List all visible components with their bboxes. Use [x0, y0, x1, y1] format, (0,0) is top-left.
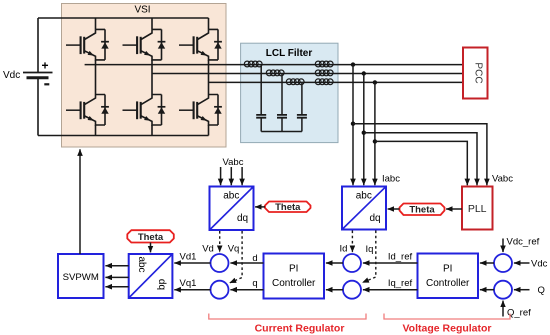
svg-text:Vdc: Vdc: [3, 70, 20, 81]
wire: Id dashed feedback: [351, 231, 353, 253]
Theta tag 3 (to dq-abc transform): [127, 230, 174, 243]
wire: Q input arrow: [514, 289, 530, 291]
wire: Theta 3 arrow into U4: [150, 243, 152, 253]
wire: Iabc sense c down to abc-dq: [374, 82, 376, 185]
SVPWM block U5: [58, 254, 104, 298]
wire: battery positive to top dc rail: [37, 18, 39, 73]
battery Vdc positive plate: [23, 72, 53, 74]
svg-text:abc: abc: [223, 191, 239, 202]
capacitor C2 lead: [281, 74, 283, 132]
svg-text:LCL Filter: LCL Filter: [266, 48, 313, 59]
wire: leg A top stub: [95, 18, 97, 29]
node branch c to PLL: [373, 139, 377, 143]
svg-text:Vd: Vd: [202, 243, 214, 254]
wire: U7 to S3 (Id_ref): [363, 262, 418, 264]
svg-text:Controller: Controller: [272, 278, 316, 289]
wire: leg C bottom stub: [208, 125, 210, 136]
inductor L6 (grid side c): [315, 79, 333, 85]
IGBT Q4 with diode D4 (leg B bottom): [123, 95, 166, 126]
wire: branch b to PLL input: [364, 133, 477, 186]
summing junction S4 (Iq): [343, 281, 361, 299]
svg-text:Current Regulator: Current Regulator: [255, 323, 345, 335]
wire: Vq dashed feedback: [230, 231, 243, 283]
node tap phase c: [373, 80, 377, 84]
node branch a to PLL: [351, 122, 355, 126]
IGBT Q1 with diode D1 (leg A top): [66, 29, 109, 60]
svg-text:Id: Id: [340, 243, 348, 254]
wire: leg C top stub: [208, 18, 210, 29]
svg-text:+: +: [42, 59, 49, 73]
wire: S3 to U6: [326, 262, 343, 264]
wire: Iabc sense a down to abc-dq: [352, 65, 354, 186]
svg-text:PLL: PLL: [468, 203, 487, 215]
inductor L2 (inverter side b): [266, 70, 284, 76]
wire: U4 to SVPWM signal 1: [105, 265, 128, 267]
capacitor C3 lead: [301, 82, 303, 131]
svg-text:Vabc: Vabc: [492, 173, 513, 184]
abc-dq voltage transform block U1: [210, 187, 254, 231]
summing junction S5 (Vdc): [494, 254, 512, 272]
svg-text:Voltage Regulator: Voltage Regulator: [402, 323, 491, 335]
wire: Vd dashed feedback: [219, 231, 221, 252]
svg-text:abc: abc: [136, 256, 147, 272]
wire: capacitor common rail: [261, 131, 302, 133]
svg-text:Vq1: Vq1: [180, 278, 197, 289]
svg-text:Vq: Vq: [228, 243, 240, 254]
svg-text:PI: PI: [289, 263, 298, 274]
inductor L1 (grid side a): [244, 61, 262, 67]
wire: PLL to Theta 2: [446, 208, 462, 210]
summing junction S1 (Vd): [211, 254, 229, 272]
svg-text:Vdc: Vdc: [531, 259, 548, 270]
svg-text:dq: dq: [369, 213, 380, 224]
svg-text:VSI: VSI: [134, 4, 150, 15]
svg-text:PCC: PCC: [473, 62, 484, 83]
battery minus sign: [44, 83, 49, 85]
wire: phase c line: [209, 81, 464, 83]
VSI block background: [62, 4, 227, 148]
node tap phase b: [362, 71, 366, 75]
inductor L3 (inverter side c): [286, 79, 304, 85]
wire: U7 to S4 (Iq_ref): [363, 289, 418, 291]
node branch b to PLL: [362, 131, 366, 135]
wire: bottom dc rail: [38, 135, 209, 137]
IGBT Q3 with diode D3 (leg B top): [123, 29, 166, 60]
wire: leg B midpoint: [151, 60, 153, 95]
wire: branch a to PLL input: [353, 124, 487, 186]
capacitor C3 plates: [297, 115, 307, 118]
wire: battery negative to bottom dc rail: [37, 78, 39, 136]
svg-text:q: q: [252, 278, 257, 289]
wire: S2 to U4 (Vq1): [174, 289, 210, 291]
wire: leg A midpoint: [95, 60, 97, 95]
wire: top dc rail: [38, 17, 209, 19]
svg-text:Theta: Theta: [138, 232, 164, 243]
IGBT Q2 with diode D2 (leg A bottom): [66, 95, 109, 126]
wire: leg B bottom stub: [151, 125, 153, 136]
wire: phase b line: [152, 73, 463, 75]
node tap phase a: [351, 62, 355, 66]
wire: Theta 2 arrow into U2: [388, 208, 400, 210]
svg-text:SVPWM: SVPWM: [63, 272, 99, 283]
wire: S4 to U6: [326, 289, 343, 291]
summing junction S2 (Vq): [211, 281, 229, 299]
summing junction S6 (Q): [494, 281, 512, 299]
svg-text:d: d: [252, 253, 257, 264]
svg-text:PI: PI: [443, 263, 452, 274]
svg-text:Controller: Controller: [426, 278, 470, 289]
abc-dq current transform block U2: [342, 187, 386, 230]
wire: leg B top stub: [151, 18, 153, 29]
wire: S5 to U7: [480, 262, 494, 264]
svg-text:Theta: Theta: [275, 202, 301, 213]
svg-text:Vd1: Vd1: [180, 252, 197, 263]
LCL Filter block background: [241, 43, 338, 142]
capacitor C1 plates: [256, 115, 266, 118]
svg-text:Iabc: Iabc: [382, 173, 400, 184]
capacitor C1 lead: [260, 65, 262, 132]
wire: Vdc_ref input arrow: [502, 239, 504, 253]
svg-text:Theta: Theta: [409, 205, 435, 216]
PCC block: [463, 48, 488, 99]
svg-text:Vdc_ref: Vdc_ref: [507, 237, 540, 248]
wire: U6 to S1 (d): [230, 262, 263, 264]
IGBT Q6 with diode D6 (leg C bottom): [179, 95, 222, 126]
wire: S6 to U7: [480, 289, 494, 291]
svg-text:Id_ref: Id_ref: [388, 251, 413, 262]
wire: Theta 1 arrow into U1: [255, 206, 265, 208]
dq-abc transform block U4: [129, 254, 173, 298]
capacitor C2 plates: [277, 115, 287, 118]
battery Vdc negative plate: [27, 76, 49, 79]
current regulator bracket: [209, 314, 366, 320]
wire: Vabc input c arrow: [241, 167, 243, 185]
svg-text:Iq: Iq: [366, 244, 374, 255]
summing junction S3 (Id): [343, 254, 361, 272]
inductor L4 (grid side a): [315, 61, 333, 67]
wire: Q_ref input arrow: [502, 301, 504, 317]
svg-text:dq: dq: [237, 213, 248, 224]
wire: U4 to SVPWM signal 3: [105, 286, 128, 288]
wire: leg C midpoint: [208, 60, 210, 95]
wire: Vdc input arrow: [514, 262, 530, 264]
PLL block U3: [462, 187, 493, 230]
wire: leg A bottom stub: [95, 125, 97, 136]
voltage regulator bracket: [384, 314, 510, 320]
Theta tag 1 (to voltage transform): [265, 202, 311, 214]
PI Controller block U6 (current): [264, 254, 325, 299]
wire: Iabc sense b down to abc-dq: [363, 74, 365, 186]
svg-text:Iq_ref: Iq_ref: [388, 278, 413, 289]
inductor L5 (grid side b): [315, 70, 333, 76]
PI Controller block U7 (voltage): [418, 254, 479, 299]
IGBT Q5 with diode D5 (leg C top): [179, 29, 222, 60]
Theta tag 2 (PLL to current transform): [400, 204, 445, 216]
wire: Vabc input a arrow: [220, 167, 222, 185]
wire: phase a line: [85, 64, 463, 66]
wire: S1 to U4 (Vd1): [174, 262, 210, 264]
wire: SVPWM gate signals up to VSI: [79, 149, 81, 254]
svg-text:abc: abc: [356, 191, 372, 202]
wire: branch c to PLL input: [375, 141, 467, 185]
svg-text:Vabc: Vabc: [223, 157, 244, 168]
svg-text:Q: Q: [538, 285, 545, 296]
wire: U6 to S2 (q): [230, 289, 263, 291]
wire: U4 to SVPWM signal 2: [105, 276, 128, 278]
wire: Vabc input b arrow: [230, 167, 232, 185]
svg-text:dq: dq: [156, 279, 167, 290]
wire: Iq dashed feedback: [362, 231, 376, 283]
